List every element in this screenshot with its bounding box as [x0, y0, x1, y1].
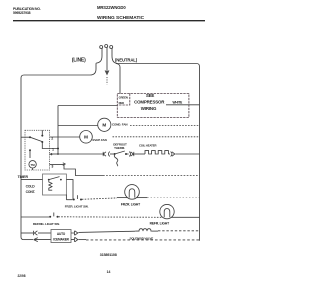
timer contact dots [29, 135, 43, 152]
svg-text:TM: TM [31, 163, 36, 167]
switch actuator stub [53, 213, 55, 217]
wire dashed to freezer lamp [82, 198, 117, 199]
icemaker feed row [21, 232, 33, 234]
return dashed to right bus [86, 239, 200, 241]
svg-text:M: M [102, 123, 106, 128]
label DEFROST THERM. [113, 142, 127, 150]
svg-text:ICEMAKER: ICEMAKER [53, 237, 69, 241]
power cord loop right [110, 46, 113, 49]
svg-text:M: M [84, 135, 88, 140]
svg-text:(LINE): (LINE) [72, 58, 86, 64]
white wire to right bus [166, 104, 200, 106]
label AUTO ICEMAKER [53, 232, 69, 241]
svg-text:REFRIG. LIGHT SW.: REFRIG. LIGHT SW. [33, 222, 60, 226]
defrost heater row left wire [58, 153, 104, 155]
cold control box [43, 174, 67, 195]
timer internal wire up [41, 130, 43, 135]
feed line dashed to right bus [103, 175, 200, 177]
wire line-side: S-curve to left bus, down left bus [21, 48, 102, 239]
cold control output wire [66, 180, 73, 200]
wire right of refr lamp [171, 216, 199, 218]
ground arrow [105, 71, 110, 76]
svg-text:4: 4 [50, 153, 52, 157]
timer feed from bus [21, 136, 30, 138]
svg-text:COLD: COLD [26, 185, 36, 189]
coil heater element (square wave) [145, 151, 168, 154]
power cord loop left [100, 46, 103, 49]
main left vertical feeder [57, 106, 59, 155]
svg-text:22/98: 22/98 [18, 274, 26, 278]
refr lamp filament [164, 209, 170, 218]
defrost thermostat contacts [114, 153, 116, 155]
svg-text:CONT.: CONT. [26, 190, 36, 194]
cold control switch arm [49, 177, 60, 180]
wire neutral-side: curve to right bus, down right bus [112, 48, 200, 241]
timer internal wire to motor [29, 150, 31, 158]
svg-text:WHITE: WHITE [173, 100, 183, 104]
power cord loop middle [105, 45, 108, 48]
cold control feed from bus [21, 179, 43, 181]
timer switch arm [30, 137, 42, 141]
svg-text:COMPRESSOR: COMPRESSOR [134, 99, 165, 104]
svg-text:SEE: SEE [146, 93, 155, 98]
svg-text:FRZR. LIGHT SW.: FRZR. LIGHT SW. [65, 204, 89, 208]
svg-text:RED: RED [119, 101, 125, 105]
refrigerator light switch row [21, 216, 49, 218]
svg-text:COIL HEATER: COIL HEATER [139, 144, 156, 148]
timer t4 wire [50, 153, 59, 155]
header title WIRING SCHEMATIC [97, 15, 145, 21]
icemaker box [51, 230, 71, 243]
svg-text:COND. FAN: COND. FAN [112, 123, 127, 127]
svg-text:TIMER: TIMER [18, 175, 29, 179]
wire right of freezer lamp [137, 197, 148, 199]
freezer lamp [125, 185, 140, 200]
wire dashed to refr lamp [58, 216, 162, 219]
svg-text:REFR. LIGHT: REFR. LIGHT [150, 222, 169, 226]
defrost timer box [25, 130, 50, 170]
icemaker return row [24, 239, 33, 241]
svg-text:MRS22WNGD0: MRS22WNGD0 [97, 5, 126, 10]
connector symbols left [103, 152, 110, 157]
red wire from vertical to compressor box [58, 105, 117, 107]
condenser fan wire left [58, 125, 98, 127]
svg-text:14: 14 [107, 270, 111, 274]
freezer light switch row [66, 195, 72, 200]
timer t3 wire with squiggle [50, 164, 65, 166]
terminal labels 2 1 4 3 [50, 136, 54, 168]
svg-text:EVAP. FAN: EVAP. FAN [93, 138, 107, 142]
svg-text:FRZR. LIGHT: FRZR. LIGHT [121, 202, 140, 206]
svg-text:AUTO: AUTO [57, 232, 66, 236]
label COLD CONT. [26, 185, 36, 194]
svg-text:THERM.: THERM. [114, 146, 125, 150]
timer internal wire t1 [42, 142, 58, 149]
cold control bellows zigzag [49, 180, 52, 190]
compressor terminal mini-box [117, 94, 130, 106]
connector symbols right of thermostat [129, 152, 134, 157]
t3 route down and right (feed line) [64, 165, 103, 176]
refrigerator lamp [160, 204, 174, 218]
timer motor TM [29, 161, 36, 168]
svg-text:315891108: 315891108 [100, 253, 117, 257]
connector right of heater [171, 152, 175, 157]
cold control contacts [48, 179, 50, 181]
arrow left row2 [34, 238, 51, 242]
svg-text:(NEUTRAL): (NEUTRAL) [115, 58, 138, 63]
icemaker right row1 connector [71, 231, 78, 235]
condenser fan wire right dashed to bus [130, 125, 200, 127]
svg-text:5995237938: 5995237938 [13, 11, 31, 15]
solenoid valve coil [135, 229, 151, 231]
header model number [97, 5, 126, 10]
evaporator fan motor [80, 131, 93, 144]
evap fan wire dashed to bus [113, 136, 200, 138]
svg-text:1: 1 [52, 148, 54, 152]
green wire from cord to compressor box [116, 64, 120, 94]
ground wire stem [106, 47, 108, 70]
ground dashes [106, 77, 108, 85]
thermostat sensing squiggle [114, 155, 118, 166]
connector bar+chevron left row1 [34, 231, 38, 235]
svg-text:2: 2 [51, 136, 53, 140]
svg-text:GREEN: GREEN [119, 96, 128, 100]
switch actuator stub [76, 195, 78, 199]
header publication text [13, 7, 41, 15]
icemaker right row2 connector [71, 237, 78, 241]
timer t2 / evap fan wire [50, 136, 80, 138]
text SEE COMPRESSOR WIRING [134, 93, 165, 111]
svg-text:WIRING: WIRING [141, 106, 157, 111]
condenser fan motor [98, 118, 111, 131]
header rule [13, 20, 205, 22]
freezer lamp filament [129, 189, 135, 198]
compressor box [117, 94, 189, 118]
